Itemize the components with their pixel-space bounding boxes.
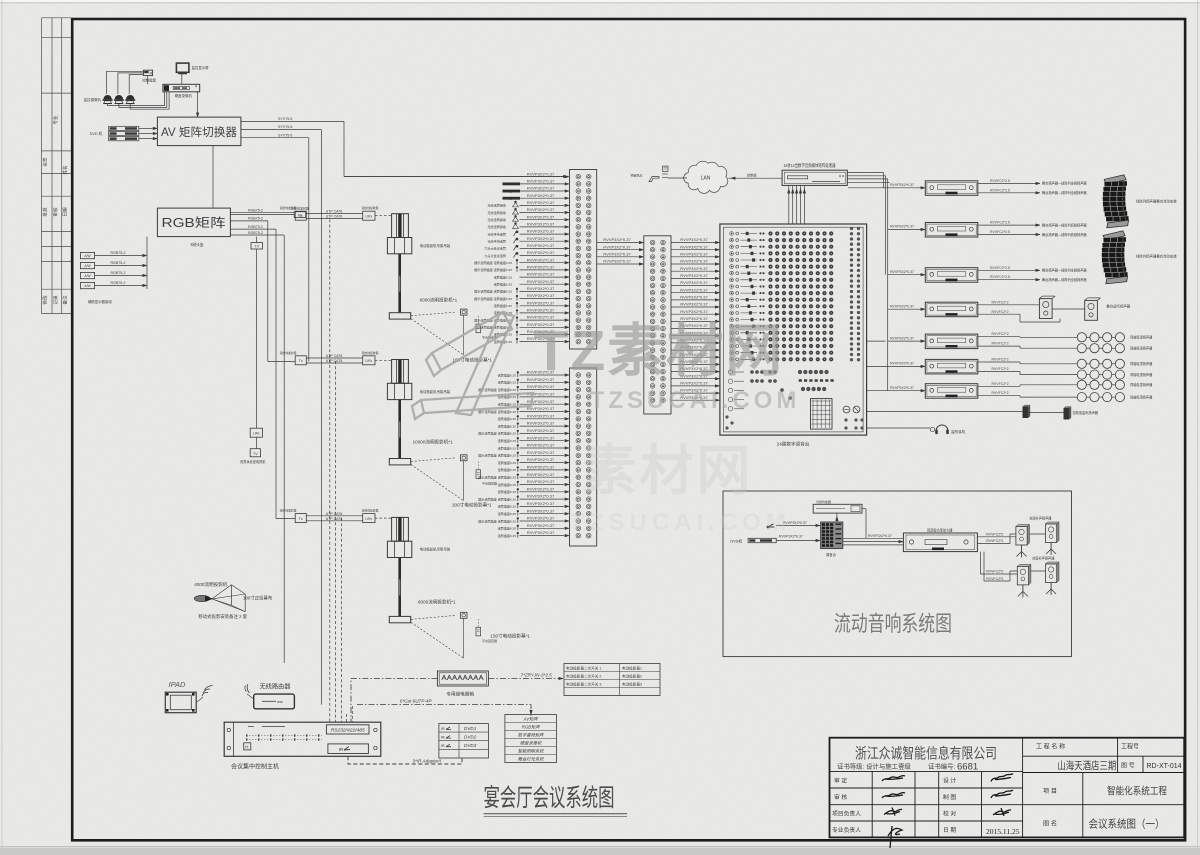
projector platform bar	[389, 459, 410, 465]
svg-text:智能照明系统: 智能照明系统	[518, 749, 544, 754]
wires host top to dashed bus	[346, 714, 348, 722]
svg-text:审 定: 审 定	[834, 777, 847, 785]
wires cameras up to keyboard	[107, 71, 144, 94]
wire auxiliary bus vertical	[146, 237, 148, 289]
wire suppressor to small mixer	[836, 513, 838, 522]
svg-text:控制键盘: 控制键盘	[142, 78, 156, 83]
svg-text:RVVFC2*2.5: RVVFC2*2.5	[990, 179, 1010, 183]
svg-text:UTP CAT6: UTP CAT6	[326, 512, 343, 516]
line array speaker cluster 2	[1101, 231, 1128, 284]
svg-text:六头大会议话筒: 六头大会议话筒	[484, 246, 506, 251]
svg-text:RVVP3X2*0.37: RVVP3X2*0.37	[680, 237, 708, 242]
svg-text:RVVP3X2*0.37: RVVP3X2*0.37	[527, 186, 555, 191]
twisted pair TX box	[295, 514, 306, 523]
wires DSP to mixer	[788, 185, 790, 224]
wire DVD to mixer	[776, 540, 818, 542]
svg-text:话筒插座6.35: 话筒插座6.35	[498, 533, 517, 538]
wire mixer to amp bus lower	[867, 340, 886, 342]
svg-text:电动投影机吊架吊装: 电动投影机吊架吊装	[420, 389, 451, 394]
wire amp A2 output 1 RVVFC2*2.5	[978, 224, 1036, 226]
svg-text:RVVP3X2*0.37: RVVP3X2*0.37	[680, 309, 708, 314]
terminal strip TS3	[644, 236, 671, 414]
twisted pair receiver LIRx box	[363, 211, 375, 220]
svg-text:数字音频矩阵: 数字音频矩阵	[518, 733, 544, 738]
svg-text:RVVP3X2*0.37: RVVP3X2*0.37	[527, 200, 555, 205]
svg-text:RVVP3X2*0.37: RVVP3X2*0.37	[890, 304, 914, 308]
power amplifier A7	[925, 384, 978, 399]
svg-text:工 程 名 称: 工 程 名 称	[1036, 743, 1065, 751]
host RS232 port panel	[326, 725, 369, 734]
svg-text:话筒插座6.35: 话筒插座6.35	[498, 482, 517, 487]
projector platform bar	[389, 616, 410, 622]
svg-text:项目负责人: 项目负责人	[832, 810, 861, 818]
svg-text:RVVP3X2*0.37: RVVP3X2*0.37	[527, 508, 555, 513]
svg-text:Tx: Tx	[299, 359, 303, 363]
svg-text:RVVFC2*2: RVVFC2*2	[991, 342, 1008, 346]
wire screen sensing dashed	[411, 312, 456, 316]
svg-text:RVVP3X2*0.37: RVVP3X2*0.37	[527, 523, 555, 528]
svg-text:IR: IR	[441, 736, 445, 740]
svg-text:RVVFC2*2: RVVFC2*2	[986, 539, 1003, 543]
monitor headphone icon	[936, 425, 948, 431]
TX box under RGB matrix	[256, 237, 258, 243]
svg-text:话筒插座6.35: 话筒插座6.35	[494, 282, 513, 287]
svg-text:RGB75-2: RGB75-2	[248, 209, 263, 213]
svg-text:UTP CAT6: UTP CAT6	[326, 209, 343, 213]
svg-text:无线话筒接收: 无线话筒接收	[487, 224, 506, 229]
IPAD tablet	[165, 692, 196, 713]
svg-text:RGB75-2: RGB75-2	[111, 271, 126, 275]
svg-text:无线话筒接收: 无线话筒接收	[487, 217, 506, 222]
wire amp A5 to ceiling speaker row 2	[978, 345, 1020, 347]
mixer knob matrix	[768, 231, 833, 361]
power amplifier A6	[925, 359, 978, 374]
svg-text:舞台返听扬声器: 舞台返听扬声器	[1106, 304, 1130, 309]
svg-text:RVVP3X2*0.37: RVVP3X2*0.37	[890, 225, 914, 229]
svg-text:RGB矩阵: RGB矩阵	[522, 725, 541, 730]
svg-text:RVVP3X2*0.37: RVVP3X2*0.37	[527, 222, 555, 227]
svg-text:专业负责人: 专业负责人	[832, 826, 861, 834]
ceiling speaker row 4	[1077, 370, 1086, 379]
svg-text:回音壁功率放大器: 回音壁功率放大器	[927, 528, 953, 533]
svg-text:话筒插座6.35: 话筒插座6.35	[498, 445, 517, 450]
svg-text:150寸电动投影幕*1: 150寸电动投影幕*1	[490, 633, 530, 640]
svg-text:RVVP3X2*0.37: RVVP3X2*0.37	[603, 259, 631, 264]
wire SYV75-5 no.2 vertical bus	[320, 130, 322, 705]
svg-text:同轴吸顶扬声器: 同轴吸顶扬声器	[1130, 382, 1153, 387]
svg-text:TZ素材网: TZ素材网	[534, 319, 785, 383]
controlled equipment list	[505, 715, 557, 763]
host IR port panel	[328, 744, 369, 754]
svg-text:话筒插座6.35: 话筒插座6.35	[498, 460, 517, 465]
wire mixer/bus to amplifier A5	[888, 340, 921, 342]
DVD source connectors	[109, 126, 139, 130]
svg-text:专业: 专业	[52, 115, 59, 125]
svg-text:话筒插座6.35: 话筒插座6.35	[494, 303, 513, 308]
svg-text:LIRx: LIRx	[253, 432, 260, 436]
mixer lower section controls	[728, 370, 833, 411]
projector lift motor box	[387, 238, 411, 254]
svg-text:娱乐话筒插座 话筒插座6.35: 娱乐话筒插座 话筒插座6.35	[474, 260, 512, 265]
svg-text:娱乐话筒插座 话筒插座6.35: 娱乐话筒插座 话筒插座6.35	[474, 296, 512, 301]
svg-text:RVVP3X2*0.37: RVVP3X2*0.37	[527, 193, 555, 198]
wire mixer/bus to amplifier A7	[888, 390, 921, 392]
wire relay to host dash-dot	[351, 679, 437, 723]
svg-text:24路数字调音台: 24路数字调音台	[777, 441, 810, 448]
svg-text:话筒插座6.35: 话筒插座6.35	[498, 402, 517, 407]
svg-text:话筒插座6.35: 话筒插座6.35	[498, 380, 517, 385]
control keyboard 控制键盘	[143, 70, 152, 75]
svg-text:电动投影幕二次开关 2: 电动投影幕二次开关 2	[566, 674, 601, 679]
twisted pair TX box	[295, 356, 306, 365]
svg-text:RGB矩阵: RGB矩阵	[162, 216, 227, 230]
svg-text:H: H	[245, 744, 248, 749]
svg-text:AV 矩阵切换器: AV 矩阵切换器	[161, 125, 237, 139]
svg-text:日 期: 日 期	[943, 827, 956, 834]
screen position camera icon	[461, 455, 468, 461]
mixer output circles	[843, 406, 850, 413]
power amplifier A4	[925, 302, 978, 317]
wire relay to switch table 7*ZRYJN	[488, 678, 563, 680]
svg-text:审核: 审核	[52, 207, 59, 217]
svg-text:6681: 6681	[957, 762, 978, 773]
svg-text:项 目: 项 目	[1043, 788, 1057, 795]
wire IR adapters dashed	[348, 756, 462, 764]
wire SYV75-5 no.1 to terminal strip row1	[343, 121, 345, 176]
svg-text:DVD机: DVD机	[730, 539, 742, 544]
wire amp A2 output 2 RVVFC2*2.5	[978, 234, 1036, 236]
dashed control bus verticals	[329, 219, 331, 722]
control room speaker 2	[1064, 406, 1072, 419]
SYV75-5 video trunk lines from AV matrix	[241, 120, 344, 122]
wire amp A5 to ceiling speaker row 1	[978, 336, 1020, 338]
svg-text:图 号: 图 号	[1121, 763, 1135, 770]
svg-text:RVVP3X2*0.37: RVVP3X2*0.37	[890, 270, 914, 274]
svg-text:RGB75-2: RGB75-2	[111, 251, 126, 255]
central control host 会议集中控制主机	[224, 722, 381, 756]
svg-text:会签: 会签	[42, 157, 49, 167]
svg-text:线阵列扬声器舞台流动安装: 线阵列扬声器舞台流动安装	[1136, 254, 1177, 259]
svg-text:会议系统图（一）: 会议系统图（一）	[1089, 818, 1165, 831]
svg-text:浙江众诚智能信息有限公司: 浙江众诚智能信息有限公司	[855, 746, 997, 763]
svg-text:RVVFC2*2.5: RVVFC2*2.5	[990, 275, 1010, 279]
svg-text:RVVP3X2*0.37: RVVP3X2*0.37	[527, 494, 555, 499]
svg-text:RVVP3X2*0.37: RVVP3X2*0.37	[527, 530, 555, 535]
svg-text:LIRx: LIRx	[365, 517, 372, 521]
svg-text:六头大会议话筒: 六头大会议话筒	[484, 253, 506, 258]
svg-text:RGB75-2: RGB75-2	[111, 281, 126, 285]
svg-text:RVVP3X2*0.37: RVVP3X2*0.37	[890, 183, 914, 187]
svg-text:RVVP3X2*0.37: RVVP3X2*0.37	[890, 336, 914, 340]
svg-text:电动投影幕二次开关 1: 电动投影幕二次开关 1	[566, 666, 601, 671]
svg-text:素材网: 素材网	[583, 441, 754, 501]
screen position camera icon	[461, 612, 468, 618]
svg-text:3*IR Adapter/i: 3*IR Adapter/i	[413, 759, 442, 764]
power amplifier A5	[925, 334, 978, 349]
svg-text:RVVP3X2*0.37: RVVP3X2*0.37	[680, 266, 708, 271]
svg-text:RGB75-2: RGB75-2	[248, 225, 263, 229]
svg-text:RVVP3X2*0.37: RVVP3X2*0.37	[680, 259, 708, 264]
svg-text:电动投影幕1: 电动投影幕1	[622, 666, 642, 671]
svg-text:RS232/422/485: RS232/422/485	[331, 728, 365, 734]
svg-text:批准: 批准	[42, 207, 49, 217]
svg-text:UTP CAT6: UTP CAT6	[326, 215, 343, 219]
svg-text:RVVP3X2*0.37: RVVP3X2*0.37	[680, 302, 708, 307]
svg-text:舞台灯光系统: 舞台灯光系统	[518, 757, 544, 762]
svg-text:8进4出: 8进4出	[190, 241, 203, 248]
svg-text:RVVP3X2*0.37: RVVP3X2*0.37	[527, 428, 555, 433]
svg-text:RVVFC2*2: RVVFC2*2	[991, 332, 1008, 336]
wifi waves ipad	[202, 686, 213, 697]
lift pole	[398, 254, 401, 312]
svg-text:RVVP3X2*0.37: RVVP3X2*0.37	[527, 265, 555, 270]
svg-text:舞台扬声器—线阵列低频扬声器: 舞台扬声器—线阵列低频扬声器	[1042, 232, 1087, 237]
projector hanger bracket	[392, 360, 409, 384]
wire mixer/bus to amplifier A1	[848, 187, 921, 189]
wire RGB output3 vertical to TX set3	[275, 229, 277, 518]
strip TS1 input wires with RVVP labels	[344, 171, 569, 344]
svg-text:审 核: 审 核	[834, 793, 847, 801]
wire laptop to LAN	[668, 177, 687, 179]
svg-text:娱乐话筒插座 话筒插座6.35: 娱乐话筒插座 话筒插座6.35	[474, 267, 512, 272]
svg-text:RVVP3X2*0.37: RVVP3X2*0.37	[527, 272, 555, 277]
wire monitor1 to monitor2	[1052, 308, 1085, 310]
svg-text:台唇补声扬声器: 台唇补声扬声器	[1029, 516, 1052, 521]
svg-text:预留机房: 预留机房	[631, 173, 643, 178]
svg-text:专用继电器箱: 专用继电器箱	[446, 691, 474, 698]
svg-text:硬盘录像机: 硬盘录像机	[175, 93, 193, 98]
svg-text:RVVP3X2*0.37: RVVP3X2*0.37	[680, 280, 708, 285]
svg-text:A/W: A/W	[84, 264, 91, 268]
svg-text:RVVP3X2*0.37: RVVP3X2*0.37	[527, 286, 555, 291]
svg-text:RVVP3X2*0.37: RVVP3X2*0.37	[890, 362, 914, 366]
wire mixer to headphone	[867, 427, 930, 429]
svg-text:宴会厅会议系统图: 宴会厅会议系统图	[484, 784, 615, 812]
svg-text:TX: TX	[254, 245, 259, 249]
svg-text:图 名: 图 名	[1043, 820, 1057, 828]
wire mixer/bus to amplifier A2	[888, 229, 921, 231]
svg-text:无线话筒接收: 无线话筒接收	[487, 203, 506, 208]
svg-text:LIRx: LIRx	[365, 359, 372, 363]
wires TS1 to TS3	[597, 237, 644, 265]
svg-text:DVD 机: DVD 机	[90, 131, 103, 136]
monitor screen 监控显示屏	[176, 63, 189, 72]
svg-text:修改: 修改	[42, 295, 49, 305]
svg-text:RVVFC2*2: RVVFC2*2	[991, 391, 1008, 395]
svg-text:硬盘录像机: 硬盘录像机	[520, 741, 542, 746]
wire mixer to control-room speakers	[867, 411, 1023, 413]
svg-text:DVD1: DVD1	[464, 726, 477, 731]
svg-text:RVVP3X2*0.37: RVVP3X2*0.37	[527, 300, 555, 305]
svg-text:TV: TV	[253, 452, 258, 456]
svg-text:话筒插座6.35: 话筒插座6.35	[498, 416, 517, 421]
svg-text:辅助显示器接线: 辅助显示器接线	[88, 299, 112, 304]
svg-text:舞台扬声器—线阵列全频扬声器: 舞台扬声器—线阵列全频扬声器	[1042, 181, 1087, 186]
twisted pair receiver LIRx box	[363, 356, 375, 365]
lift pole	[398, 558, 401, 617]
wifi waves router	[245, 684, 250, 693]
svg-text:RVVFC2*2.5: RVVFC2*2.5	[990, 230, 1010, 234]
ceiling speaker row 2	[1077, 344, 1086, 353]
projector lift motor box	[387, 541, 411, 557]
svg-text:平台固定器: 平台固定器	[482, 480, 497, 485]
svg-text:6000流明投影机*1: 6000流明投影机*1	[418, 599, 456, 606]
svg-text:Tx: Tx	[299, 215, 303, 219]
svg-text:会议集中控制主机: 会议集中控制主机	[231, 763, 279, 771]
svg-text:RVVP3X2*0.37: RVVP3X2*0.37	[527, 279, 555, 284]
projector hanger bracket	[392, 214, 409, 238]
svg-text:话筒插座6.35: 话筒插座6.35	[498, 467, 517, 472]
wire amp A1 output 1 RVVFC2*2.5	[978, 182, 1036, 184]
wire TX2 down to lounge TV receiver	[256, 249, 258, 428]
svg-text:6*Cat 6UTP-4P: 6*Cat 6UTP-4P	[400, 699, 433, 704]
svg-text:双绞线发射器: 双绞线发射器	[280, 351, 297, 355]
wire amp A3 output 2 RVVFC2*2.5	[978, 279, 1036, 281]
svg-text:RVVP3X2*0.37: RVVP3X2*0.37	[527, 293, 555, 298]
svg-text:话筒插座6.35: 话筒插座6.35	[498, 438, 517, 443]
RGB75-2 output lines	[230, 212, 294, 214]
svg-text:RVVP3X2*0.37: RVVP3X2*0.37	[527, 257, 555, 262]
svg-text:Tx: Tx	[299, 517, 303, 521]
screen position camera icon	[461, 309, 468, 315]
wires amp to rear speakers RVVFC2*2	[979, 552, 981, 574]
svg-text:舞台扬声器—线阵列全频扬声器: 舞台扬声器—线阵列全频扬声器	[1042, 190, 1087, 195]
svg-text:UTP CAT6: UTP CAT6	[326, 517, 343, 521]
svg-text:监控显示屏: 监控显示屏	[192, 65, 210, 70]
svg-text:IR: IR	[441, 744, 445, 748]
svg-text:娱乐话筒插座 话筒插座6.35: 娱乐话筒插座 话筒插座6.35	[478, 496, 516, 501]
hard-disk recorder 硬盘录像机	[163, 84, 200, 92]
svg-text:娱乐话筒插座 话筒插座6.35: 娱乐话筒插座 话筒插座6.35	[478, 431, 516, 436]
stage monitor speaker 1	[1039, 299, 1052, 319]
svg-text:UTP CAT6: UTP CAT6	[326, 354, 343, 358]
wire monitor to recorder	[181, 74, 183, 85]
svg-text:平台固定器: 平台固定器	[482, 638, 497, 643]
svg-text:工程号: 工程号	[1121, 743, 1139, 751]
line array speaker cluster 1	[1102, 175, 1129, 228]
wire amp A3 output 1 RVVFC2*2.5	[978, 269, 1036, 271]
projection cone to 100-inch screen	[212, 585, 232, 599]
svg-text:同轴吸顶扬声器: 同轴吸顶扬声器	[1130, 394, 1153, 399]
svg-text:RVVP3X2*0.37: RVVP3X2*0.37	[527, 457, 555, 462]
small mixer 调音台	[821, 522, 843, 549]
svg-text:TZSUCAI.COM: TZSUCAI.COM	[569, 509, 791, 536]
svg-text:ww: ww	[277, 699, 283, 704]
wires TS3 to mixer with RVVP labels	[671, 237, 720, 401]
wire 6xCat dash-dot host to AV list	[357, 705, 531, 716]
svg-text:证书等级: 设计与施工壹级: 证书等级: 设计与施工壹级	[837, 762, 911, 771]
svg-text:双绞线接收器: 双绞线接收器	[362, 206, 379, 210]
svg-text:IPAD: IPAD	[169, 680, 187, 689]
screen switch table	[564, 664, 660, 696]
svg-text:智能化系统工程: 智能化系统工程	[1107, 785, 1167, 798]
title block frame	[830, 738, 1185, 838]
svg-text:10000流明投影机*1: 10000流明投影机*1	[413, 439, 454, 446]
svg-text:电动投影幕二次开关 3: 电动投影幕二次开关 3	[566, 682, 601, 687]
svg-text:RVVP3X2*0.37: RVVP3X2*0.37	[527, 450, 555, 455]
wire amp A6 to ceiling speaker row 3	[978, 361, 1020, 363]
twisted pair receiver LIRx lounge	[250, 428, 262, 437]
wire LAN to DSP processor	[728, 177, 782, 179]
svg-text:话筒插座6.35: 话筒插座6.35	[498, 504, 517, 509]
svg-text:RVVP3X2*0.37: RVVP3X2*0.37	[527, 243, 555, 248]
lounge TV box	[256, 437, 258, 449]
svg-text:RVVFC2*2: RVVFC2*2	[991, 382, 1008, 386]
svg-text:RVVP3X2*0.37: RVVP3X2*0.37	[527, 413, 555, 418]
wire vertical to TX set1	[230, 214, 294, 216]
power amplifier A3	[925, 268, 978, 283]
svg-text:RVVP3X2*0.37: RVVP3X2*0.37	[527, 214, 555, 219]
svg-text:100寸正投幕布: 100寸正投幕布	[243, 595, 273, 602]
svg-text:RVVFC2*2: RVVFC2*2	[991, 300, 1008, 304]
svg-text:RVVP3X2*0.37: RVVP3X2*0.37	[527, 516, 555, 521]
svg-text:RGB75-2: RGB75-2	[248, 231, 263, 235]
svg-text:移动式投影安装备注 2 套: 移动式投影安装备注 2 套	[198, 613, 247, 620]
wire RGB output4 vertical	[283, 235, 285, 663]
svg-text:A/W: A/W	[84, 284, 91, 288]
svg-text:电动投影机吊架吊装: 电动投影机吊架吊装	[420, 547, 451, 552]
mixer channel strips	[730, 232, 765, 362]
svg-text:RVVP3X2*0.37: RVVP3X2*0.37	[527, 472, 555, 477]
wire amp A7 to ceiling speaker row 5	[978, 385, 1020, 387]
mobile speaker front-right	[1045, 522, 1059, 524]
svg-text:同轴吸顶扬声器: 同轴吸顶扬声器	[1130, 335, 1153, 340]
svg-text:无线路由器: 无线路由器	[260, 683, 292, 691]
svg-text:RVVP3X2*0.37: RVVP3X2*0.37	[527, 486, 555, 491]
IR sensor icon	[476, 470, 481, 479]
twisted pair TX box	[295, 211, 306, 220]
wires cameras down to recorder	[108, 92, 165, 106]
mobile speaker front-left	[1016, 525, 1030, 527]
UTP CAT6 link wires	[306, 515, 362, 517]
svg-text:贵宾休息室电视机: 贵宾休息室电视机	[240, 459, 266, 464]
svg-text:LAN: LAN	[701, 176, 711, 182]
UTP CAT6 link wires	[306, 357, 362, 359]
wire amp A6 to ceiling speaker row 4	[978, 370, 1020, 372]
ceiling speaker row 5	[1077, 380, 1086, 389]
svg-text:2015.11.25: 2015.11.25	[986, 827, 1020, 836]
svg-text:双绞线发射器: 双绞线发射器	[280, 206, 297, 210]
signature scribbles	[882, 774, 1013, 849]
svg-text:SYV75-5: SYV75-5	[278, 125, 292, 129]
svg-text:IR: IR	[339, 747, 344, 752]
svg-text:RVVP3X2*0.37: RVVP3X2*0.37	[527, 435, 555, 440]
power amplifier A1	[925, 181, 978, 196]
svg-text:RGB75-2: RGB75-2	[248, 217, 263, 221]
wire receiver to projector dashed	[375, 517, 392, 519]
wire amp A1 output 2 RVVFC2*2.5	[978, 192, 1036, 194]
mixer master dot columns	[850, 227, 860, 362]
projector platform bar	[389, 313, 410, 319]
wire amp A7 to ceiling speaker row 6	[978, 395, 1020, 397]
svg-text:DVD3: DVD3	[464, 743, 477, 748]
svg-text:7*ZRYJN-3*2.5: 7*ZRYJN-3*2.5	[521, 673, 553, 678]
svg-text:分频均衡器: 分频均衡器	[816, 499, 831, 504]
wire mixer/bus to amplifier A3	[888, 274, 921, 276]
svg-text:RVVP3X2*0.37: RVVP3X2*0.37	[603, 237, 631, 242]
wire screen sensing dashed	[411, 615, 456, 619]
svg-text:RVVP3X2*0.37: RVVP3X2*0.37	[527, 229, 555, 234]
strip TS2 input wires with RVVP labels	[478, 370, 569, 538]
wires mixer to power amplifier	[843, 537, 904, 539]
cameras 监控摄像机 x3	[103, 95, 113, 104]
svg-text:6000流明投影机*1: 6000流明投影机*1	[420, 297, 458, 304]
control room speaker 1	[1023, 405, 1031, 418]
wireless router box	[254, 694, 295, 709]
svg-text:LIRx: LIRx	[365, 215, 372, 219]
svg-text:电动投影幕2: 电动投影幕2	[622, 674, 642, 679]
svg-text:RVVP3X2*0.37: RVVP3X2*0.37	[527, 308, 555, 313]
